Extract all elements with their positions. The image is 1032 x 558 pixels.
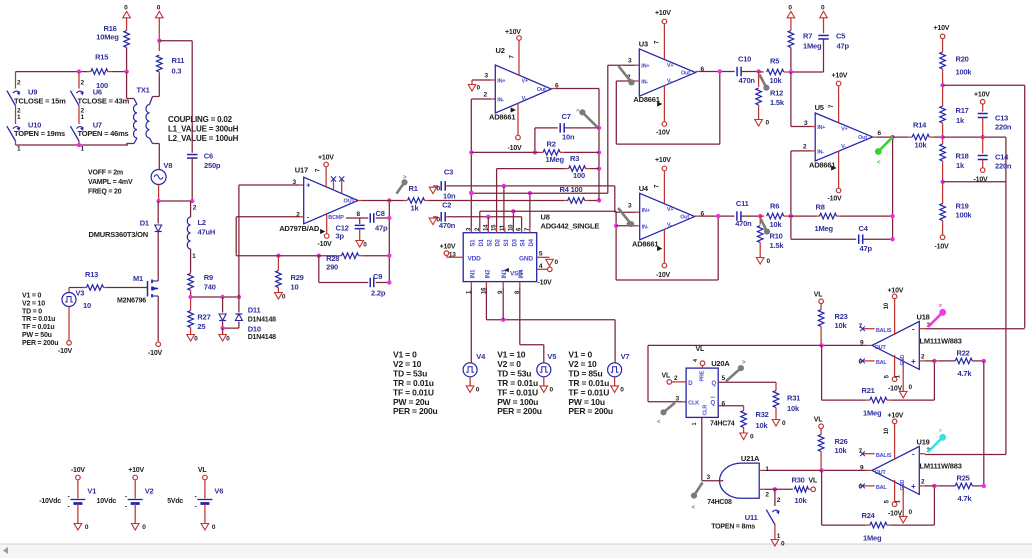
- svg-text:TD = 0: TD = 0: [22, 308, 42, 315]
- svg-text:10n: 10n: [443, 192, 456, 201]
- svg-text:PRE: PRE: [700, 370, 706, 381]
- svg-text:5: 5: [885, 499, 891, 503]
- svg-text:V4: V4: [476, 352, 486, 361]
- svg-text:220n: 220n: [995, 162, 1012, 171]
- svg-text:10: 10: [884, 427, 890, 434]
- svg-text:VL: VL: [809, 478, 818, 485]
- svg-text:1: 1: [81, 114, 85, 121]
- svg-text:1k: 1k: [956, 116, 965, 125]
- svg-text:VL: VL: [662, 372, 671, 379]
- svg-text:-10V: -10V: [828, 196, 843, 203]
- svg-text:V+: V+: [667, 207, 673, 213]
- svg-text:R13: R13: [85, 270, 98, 279]
- svg-text:0: 0: [555, 259, 559, 266]
- svg-text:-10V: -10V: [58, 348, 73, 355]
- svg-text:290: 290: [326, 263, 338, 272]
- svg-text:10: 10: [884, 302, 890, 309]
- svg-text:+10V: +10V: [128, 467, 144, 474]
- svg-text:+10V: +10V: [888, 287, 904, 294]
- svg-text:0: 0: [788, 4, 792, 11]
- svg-text:47p: 47p: [375, 224, 388, 233]
- svg-text:V3: V3: [76, 289, 85, 298]
- svg-text:-10Vdc: -10Vdc: [39, 498, 61, 505]
- svg-text:BAL/S: BAL/S: [876, 453, 892, 459]
- svg-text:U8: U8: [541, 213, 550, 222]
- svg-text:S4: S4: [521, 239, 527, 247]
- svg-text:-10V: -10V: [656, 272, 671, 279]
- svg-text:R6: R6: [770, 202, 779, 211]
- svg-text:2: 2: [17, 79, 21, 86]
- svg-text:PER = 200u: PER = 200u: [393, 406, 438, 416]
- svg-text:2: 2: [921, 353, 925, 360]
- svg-text:R27: R27: [197, 313, 210, 322]
- svg-text:5: 5: [539, 251, 543, 258]
- svg-text:R29: R29: [291, 273, 304, 282]
- svg-text:1: 1: [81, 146, 85, 153]
- svg-text:AD8661: AD8661: [632, 240, 658, 249]
- svg-text:TCLOSE = 43m: TCLOSE = 43m: [78, 97, 130, 106]
- svg-text:1Meg: 1Meg: [803, 42, 822, 51]
- svg-text:IN-: IN-: [641, 80, 648, 86]
- svg-text:TOPEN = 46ms: TOPEN = 46ms: [78, 129, 129, 138]
- svg-text:VSS: VSS: [510, 271, 523, 278]
- svg-text:2.2p: 2.2p: [371, 289, 386, 298]
- svg-text:IN+: IN+: [642, 208, 650, 214]
- svg-text:R14: R14: [913, 121, 927, 130]
- svg-text:C2: C2: [442, 201, 451, 210]
- svg-text:D11: D11: [248, 306, 261, 315]
- svg-text:100: 100: [573, 171, 585, 180]
- svg-text:74HC74: 74HC74: [710, 421, 735, 428]
- svg-text:R1: R1: [409, 184, 418, 193]
- svg-text:2: 2: [81, 79, 85, 86]
- svg-text:S1: S1: [470, 239, 476, 247]
- svg-text:0.3: 0.3: [172, 67, 182, 76]
- svg-text:IN1: IN1: [470, 269, 476, 279]
- svg-text:TR = 0.01u: TR = 0.01u: [22, 316, 55, 323]
- svg-text:VOFF = 2m: VOFF = 2m: [88, 170, 123, 177]
- svg-text:R12: R12: [770, 89, 783, 98]
- svg-text:0: 0: [124, 4, 128, 11]
- svg-text:0: 0: [909, 384, 913, 391]
- svg-text:V2: V2: [145, 487, 154, 496]
- svg-text:7: 7: [316, 168, 322, 172]
- svg-text:V+: V+: [841, 126, 847, 132]
- svg-text:0: 0: [781, 541, 785, 548]
- svg-text:-10V: -10V: [318, 241, 333, 248]
- svg-text:1Meg: 1Meg: [815, 224, 834, 233]
- svg-text:-10V: -10V: [656, 130, 671, 137]
- svg-text:1Meg: 1Meg: [863, 533, 882, 542]
- svg-text:GND: GND: [900, 479, 906, 490]
- svg-text:47p: 47p: [837, 42, 850, 51]
- svg-text:1Meg: 1Meg: [863, 408, 882, 417]
- svg-text:4: 4: [693, 358, 699, 362]
- svg-text:Out: Out: [537, 87, 546, 93]
- svg-text:470n: 470n: [735, 219, 752, 228]
- svg-text:PW = 50u: PW = 50u: [22, 332, 52, 339]
- svg-text:10Vdc: 10Vdc: [97, 498, 117, 505]
- svg-text:D3: D3: [512, 238, 518, 246]
- svg-text:2: 2: [484, 92, 488, 99]
- svg-text:10k: 10k: [787, 404, 800, 413]
- svg-text:0: 0: [437, 186, 441, 193]
- svg-text:R10: R10: [770, 232, 783, 241]
- svg-text:R2: R2: [547, 140, 556, 149]
- svg-text:1.5k: 1.5k: [770, 241, 785, 250]
- svg-text:AD797B/AD: AD797B/AD: [279, 224, 320, 233]
- svg-text:6: 6: [878, 130, 882, 137]
- svg-text:<: <: [657, 420, 661, 426]
- svg-text:0: 0: [282, 294, 286, 301]
- svg-text:+10V: +10V: [934, 25, 950, 32]
- svg-text:U17: U17: [295, 166, 308, 175]
- svg-text:1: 1: [692, 423, 698, 426]
- svg-text:7: 7: [510, 55, 516, 59]
- svg-text:-10V: -10V: [538, 280, 553, 287]
- svg-text:R9: R9: [204, 273, 213, 282]
- svg-text:1Meg: 1Meg: [546, 155, 565, 164]
- svg-text:740: 740: [204, 283, 216, 292]
- svg-text:0: 0: [767, 258, 771, 265]
- svg-text:C4: C4: [859, 224, 869, 233]
- svg-text:V+: V+: [667, 63, 673, 69]
- svg-text:-10V: -10V: [508, 145, 523, 152]
- svg-text:C8: C8: [376, 209, 385, 218]
- svg-text:VL: VL: [814, 417, 823, 424]
- svg-text:+10V: +10V: [318, 155, 334, 162]
- svg-text:D1N4148: D1N4148: [248, 316, 276, 323]
- svg-text:U6: U6: [93, 88, 102, 97]
- svg-text:R25: R25: [957, 474, 970, 483]
- svg-text:0: 0: [620, 387, 624, 394]
- svg-text:3p: 3p: [336, 232, 345, 241]
- svg-text:D4: D4: [529, 238, 535, 246]
- svg-text:IN-: IN-: [642, 224, 649, 230]
- svg-text:L1_VALUE = 300uH: L1_VALUE = 300uH: [168, 125, 239, 134]
- svg-text:TOPEN = 19ms: TOPEN = 19ms: [14, 129, 65, 138]
- svg-text:3: 3: [628, 203, 632, 210]
- svg-text:>: >: [939, 428, 943, 434]
- svg-text:V1 = 0: V1 = 0: [22, 293, 42, 300]
- svg-text:R8: R8: [816, 203, 825, 212]
- svg-text:C9: C9: [373, 272, 382, 281]
- svg-text:Out: Out: [680, 215, 689, 221]
- svg-text:3: 3: [707, 474, 711, 481]
- svg-text:R7: R7: [803, 32, 812, 41]
- svg-text:0: 0: [821, 4, 825, 11]
- svg-text:PER = 200u: PER = 200u: [497, 406, 542, 416]
- svg-text:R17: R17: [956, 106, 969, 115]
- svg-text:2: 2: [777, 497, 781, 504]
- svg-text:CLK: CLK: [688, 400, 699, 406]
- svg-text:0: 0: [766, 120, 770, 127]
- svg-text:R5: R5: [770, 57, 779, 66]
- svg-text:TF = 0.01u: TF = 0.01u: [22, 324, 54, 331]
- svg-text:AD8661: AD8661: [489, 113, 515, 122]
- svg-text:10Meg: 10Meg: [96, 33, 119, 42]
- svg-text:10k: 10k: [756, 421, 769, 430]
- svg-text:10k: 10k: [915, 141, 928, 150]
- svg-text:IN2: IN2: [485, 269, 491, 279]
- svg-text:2: 2: [193, 205, 197, 212]
- svg-text:GND: GND: [900, 354, 906, 365]
- svg-text:ADG442_SINGLE: ADG442_SINGLE: [541, 222, 600, 231]
- svg-text:0: 0: [363, 242, 367, 249]
- svg-text:-: -: [912, 450, 915, 459]
- svg-text:R3: R3: [570, 154, 579, 163]
- svg-text:V-: V-: [522, 96, 527, 102]
- svg-text:0: 0: [212, 524, 216, 531]
- svg-text:100k: 100k: [956, 68, 973, 77]
- svg-text:74HC08: 74HC08: [707, 499, 732, 506]
- svg-text:6: 6: [701, 66, 705, 73]
- svg-text:D1: D1: [479, 238, 485, 246]
- svg-text:0: 0: [85, 524, 89, 531]
- svg-text:4.7k: 4.7k: [958, 494, 973, 503]
- svg-text:D: D: [688, 381, 693, 387]
- svg-text:2: 2: [674, 375, 678, 382]
- svg-text:3: 3: [628, 58, 632, 65]
- svg-text:U5: U5: [815, 103, 824, 112]
- svg-text:PER = 200u: PER = 200u: [22, 340, 58, 347]
- svg-text:CLR: CLR: [703, 405, 709, 416]
- svg-text:C6: C6: [204, 152, 213, 161]
- svg-text:0: 0: [142, 524, 146, 531]
- svg-text:+10V: +10V: [440, 243, 456, 250]
- svg-text:-: -: [912, 325, 915, 334]
- svg-text:7: 7: [829, 104, 835, 108]
- svg-text:IN-: IN-: [497, 98, 504, 104]
- svg-text:FREQ = 20: FREQ = 20: [88, 189, 122, 196]
- svg-text:>: >: [939, 303, 943, 309]
- svg-text:0: 0: [550, 387, 554, 394]
- svg-text:+10V: +10V: [974, 92, 990, 99]
- svg-text:C3: C3: [444, 168, 453, 177]
- svg-text:+: +: [306, 183, 310, 190]
- svg-text:U18: U18: [917, 313, 930, 322]
- svg-text:DMURS360T3/ON: DMURS360T3/ON: [89, 230, 149, 239]
- svg-text:<: <: [877, 160, 881, 166]
- svg-text:VL: VL: [696, 346, 705, 353]
- svg-text:+10V: +10V: [832, 73, 848, 80]
- svg-text:C14: C14: [995, 153, 1009, 162]
- svg-text:R26: R26: [835, 437, 848, 446]
- svg-text:<: <: [692, 505, 696, 511]
- svg-text:0: 0: [909, 509, 913, 516]
- svg-text:0: 0: [476, 387, 480, 394]
- svg-text:5: 5: [885, 374, 891, 378]
- svg-text:220n: 220n: [995, 123, 1012, 132]
- svg-text:25: 25: [197, 322, 205, 331]
- svg-text:0: 0: [782, 420, 786, 427]
- svg-text:1: 1: [765, 466, 769, 473]
- svg-text:0: 0: [194, 336, 198, 343]
- svg-text:V7: V7: [621, 352, 630, 361]
- svg-text:1k: 1k: [956, 161, 965, 170]
- svg-text:TOPEN = 8ms: TOPEN = 8ms: [711, 523, 755, 530]
- svg-text:U2: U2: [496, 46, 505, 55]
- svg-text:13: 13: [449, 252, 456, 259]
- svg-text:2: 2: [765, 491, 769, 498]
- svg-text:LM111W/883: LM111W/883: [920, 462, 962, 471]
- svg-text:BCMP: BCMP: [328, 215, 344, 221]
- svg-text:VDD: VDD: [468, 256, 482, 263]
- svg-text:U19: U19: [917, 438, 930, 447]
- svg-text:U9: U9: [28, 88, 37, 97]
- svg-text:0: 0: [477, 85, 481, 92]
- svg-text:+10V: +10V: [888, 412, 904, 419]
- svg-text:R15: R15: [95, 53, 108, 62]
- svg-text:Out: Out: [858, 135, 867, 141]
- svg-text:V6: V6: [214, 487, 223, 496]
- svg-text:10k: 10k: [835, 446, 848, 455]
- svg-text:C13: C13: [995, 114, 1008, 123]
- svg-text:R30: R30: [792, 476, 805, 485]
- svg-text:U11: U11: [745, 513, 758, 522]
- svg-text:8: 8: [357, 211, 361, 218]
- svg-text:4.7k: 4.7k: [958, 369, 973, 378]
- svg-text:R32: R32: [756, 410, 769, 419]
- svg-text:7: 7: [655, 184, 661, 188]
- svg-text:R18: R18: [956, 152, 969, 161]
- svg-text:1: 1: [192, 253, 196, 260]
- svg-text:Q: Q: [712, 381, 717, 387]
- svg-text:BAL/S: BAL/S: [876, 328, 892, 334]
- svg-text:TX1: TX1: [137, 86, 150, 95]
- svg-text:U4: U4: [639, 184, 649, 193]
- svg-text:C5: C5: [836, 32, 845, 41]
- svg-text:-: -: [307, 214, 310, 221]
- svg-text:D10: D10: [248, 324, 261, 333]
- svg-text:10k: 10k: [835, 321, 848, 330]
- svg-text:M1: M1: [133, 274, 143, 283]
- svg-text:6: 6: [722, 401, 726, 408]
- svg-text:D1: D1: [140, 218, 149, 227]
- svg-text:V1: V1: [87, 487, 96, 496]
- svg-text:10: 10: [83, 301, 91, 310]
- svg-text:5Vdc: 5Vdc: [167, 498, 183, 505]
- svg-text:R11: R11: [172, 56, 185, 65]
- svg-text:VAMPL = 4mV: VAMPL = 4mV: [88, 179, 133, 186]
- svg-text:+10V: +10V: [655, 157, 671, 164]
- svg-text:S3: S3: [504, 239, 510, 247]
- svg-text:R21: R21: [862, 386, 875, 395]
- svg-text:IN+: IN+: [641, 64, 649, 70]
- svg-text:M2N6796: M2N6796: [117, 298, 146, 305]
- svg-text:1: 1: [17, 114, 21, 121]
- svg-text:250p: 250p: [204, 161, 221, 170]
- svg-text:V2 = 10: V2 = 10: [22, 300, 45, 307]
- svg-text:+: +: [911, 482, 916, 491]
- svg-text:5: 5: [722, 375, 726, 382]
- svg-text:D1N4148: D1N4148: [248, 334, 276, 341]
- svg-text:Out: Out: [681, 71, 690, 77]
- svg-text:IN-: IN-: [817, 149, 824, 155]
- svg-text:VL: VL: [198, 467, 207, 474]
- svg-text:IN+: IN+: [817, 125, 825, 131]
- svg-text:V5: V5: [547, 352, 556, 361]
- svg-text:+10V: +10V: [655, 10, 671, 17]
- svg-text:BAL: BAL: [876, 485, 888, 491]
- svg-text:R24: R24: [862, 511, 876, 520]
- svg-text:OUT: OUT: [875, 345, 887, 351]
- svg-text:OUT: OUT: [344, 199, 356, 205]
- svg-text:470n: 470n: [739, 76, 756, 85]
- svg-text:C10: C10: [738, 55, 751, 64]
- svg-text:AD8661: AD8661: [633, 95, 659, 104]
- svg-text:0: 0: [226, 336, 230, 343]
- svg-text:470n: 470n: [439, 221, 456, 230]
- svg-text:GND: GND: [519, 256, 533, 263]
- svg-text:>: >: [742, 360, 746, 366]
- svg-text:-10V: -10V: [148, 350, 163, 357]
- svg-text:0: 0: [157, 4, 161, 11]
- svg-text:1.5k: 1.5k: [770, 98, 785, 107]
- svg-text:10k: 10k: [770, 220, 783, 229]
- svg-text:S2: S2: [487, 239, 493, 247]
- svg-text:C7: C7: [562, 112, 571, 121]
- svg-text:-10V: -10V: [71, 467, 86, 474]
- svg-text:7: 7: [655, 40, 661, 44]
- svg-text:R19: R19: [956, 202, 969, 211]
- svg-text:10k: 10k: [770, 76, 783, 85]
- svg-text:V-: V-: [667, 79, 672, 85]
- svg-text:1: 1: [896, 499, 902, 503]
- svg-text:R31: R31: [787, 394, 800, 403]
- svg-text:OUT: OUT: [875, 470, 887, 476]
- svg-text:10: 10: [291, 283, 299, 292]
- svg-text:1: 1: [17, 146, 21, 153]
- svg-text:3: 3: [293, 179, 297, 186]
- svg-text:R20: R20: [956, 55, 969, 64]
- svg-text:47p: 47p: [860, 244, 873, 253]
- svg-text:10k: 10k: [795, 496, 808, 505]
- svg-text:U20A: U20A: [711, 359, 730, 368]
- svg-text:1: 1: [896, 374, 902, 378]
- svg-text:2: 2: [921, 478, 925, 485]
- svg-text:-10V: -10V: [974, 177, 989, 184]
- svg-text:V-: V-: [841, 144, 846, 150]
- svg-text:2: 2: [803, 144, 807, 151]
- svg-text:LM111W/883: LM111W/883: [920, 337, 962, 346]
- svg-text:3: 3: [676, 395, 680, 402]
- svg-text:100k: 100k: [956, 211, 973, 220]
- svg-text:0: 0: [750, 434, 754, 441]
- svg-text:6: 6: [701, 211, 705, 218]
- svg-text:TCLOSE = 15m: TCLOSE = 15m: [14, 97, 66, 106]
- svg-text:U21A: U21A: [741, 454, 760, 463]
- svg-text:3: 3: [485, 73, 489, 80]
- svg-text:R22: R22: [957, 349, 970, 358]
- svg-text:-10V: -10V: [935, 244, 950, 251]
- svg-text:+: +: [911, 357, 916, 366]
- svg-text:COUPLING = 0.02: COUPLING = 0.02: [168, 115, 233, 124]
- svg-text:47uH: 47uH: [198, 228, 216, 237]
- svg-text:IN+: IN+: [497, 79, 505, 85]
- svg-text:L2: L2: [198, 218, 206, 227]
- svg-text:PER = 200u: PER = 200u: [568, 406, 613, 416]
- svg-text:4: 4: [539, 263, 543, 270]
- svg-text:V8: V8: [163, 161, 172, 170]
- svg-text:L2_VALUE = 100uH: L2_VALUE = 100uH: [168, 134, 239, 143]
- svg-text:+10V: +10V: [505, 29, 521, 36]
- svg-text:10n: 10n: [562, 133, 575, 142]
- svg-text:C11: C11: [736, 199, 749, 208]
- svg-text:R23: R23: [835, 312, 848, 321]
- svg-text:U3: U3: [639, 39, 648, 48]
- svg-text:BAL: BAL: [876, 360, 888, 366]
